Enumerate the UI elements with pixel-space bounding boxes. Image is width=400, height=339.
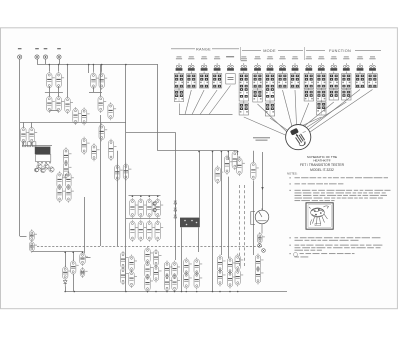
resistor R62 [194, 258, 202, 276]
resistor R29 [147, 198, 155, 219]
switch S2D MODE 4 [278, 56, 287, 88]
resistor R5 [65, 96, 73, 114]
resistor R9 [98, 95, 106, 113]
resistor R63 [194, 272, 202, 290]
pilot lamp PL1 [258, 244, 262, 248]
svg-text:RANGE: RANGE [196, 47, 211, 51]
wire mode slant [283, 90, 293, 127]
wire from post E [59, 59, 61, 64]
resistor R20 [57, 185, 65, 203]
resistor R27 [138, 198, 146, 219]
resistor R2 [56, 71, 64, 89]
resistor R72 [21, 126, 29, 144]
wire dashed chassis line [37, 246, 262, 248]
resistor R30 [147, 220, 155, 242]
wire from SELF-TEST post [19, 59, 21, 122]
resistor R59 [172, 274, 180, 292]
resistor R73 [29, 126, 37, 144]
resistor R1 [47, 71, 55, 89]
wire long vertical [125, 64, 127, 291]
resistor R45 [80, 267, 87, 278]
resistor R61 [184, 272, 192, 290]
callout circle with hand icon [286, 125, 311, 150]
switch S1D RANGE 4 [212, 56, 221, 88]
resistor R54 [153, 249, 161, 267]
resistor R17 [63, 147, 71, 165]
wire horizontal mid [158, 150, 238, 152]
wire from post B [45, 59, 47, 64]
resistor R42 [63, 266, 71, 281]
wire drop to R1 [49, 64, 51, 71]
wire vertical [221, 151, 223, 255]
wire drop to R8 [101, 64, 103, 72]
wire vertical meter feed [262, 152, 264, 210]
wire drop to R72 [23, 122, 25, 127]
resistor R74 [224, 155, 232, 175]
transformer T1 (solid block) [35, 147, 51, 155]
wire above T1 [22, 145, 52, 147]
resistor R71 [255, 267, 263, 285]
wire cluster C top bus [129, 195, 161, 197]
switch S3D FUNCTION 4 [342, 56, 351, 100]
resistor R47 [120, 251, 128, 269]
resistor R8 [99, 72, 107, 90]
small part row above T1 [23, 142, 36, 147]
wire below R7 [93, 87, 95, 92]
wire from post C [37, 59, 39, 64]
resistor R64 [217, 255, 225, 273]
wire R2-R4 [58, 86, 60, 96]
pilot lamp PL2 [262, 249, 266, 253]
wire drop E1 [65, 252, 67, 267]
resistor R14 [91, 143, 99, 161]
diode string D1-D3 [174, 201, 177, 218]
wire drop to R5 [67, 64, 69, 97]
resistor R40 [251, 161, 259, 181]
wire function slant [307, 102, 347, 128]
wire from T2 right [198, 227, 200, 252]
resistor R23 [29, 229, 37, 242]
RANGE group header [171, 47, 239, 51]
wire vertical [84, 197, 86, 253]
resistor R67 [227, 271, 235, 289]
wire jog E [86, 257, 91, 259]
transistor Q2 [44, 164, 49, 169]
switch S2E MODE 5 [290, 56, 299, 88]
wire jog to R23 [20, 236, 27, 238]
note 3 [290, 190, 391, 201]
transformer T2 (solid block) [180, 218, 200, 228]
wire vertical [228, 151, 230, 160]
wire RANGE bus [179, 114, 233, 116]
resistor R12 [99, 123, 107, 141]
resistor R7 [91, 72, 99, 90]
resistor R10 [108, 102, 116, 120]
wire vertical [157, 64, 159, 151]
svg-text:HEATHKIT®: HEATHKIT® [313, 158, 331, 162]
relay K1 box [35, 155, 50, 162]
resistor R50 [129, 270, 137, 288]
arrowhead on meter feed [261, 187, 263, 190]
binding post B [43, 48, 47, 59]
transistor Q4 [153, 202, 157, 206]
wire tie [45, 92, 63, 94]
switch S1C RANGE 3 [199, 56, 208, 88]
wire mode slant [244, 117, 287, 136]
wire vertical [175, 132, 177, 260]
resistor R51 [145, 247, 153, 265]
resistor R46 [80, 252, 88, 267]
note 1 [290, 177, 389, 178]
resistor R52 [145, 261, 153, 279]
wire vertical left long [19, 122, 21, 236]
wire bottom bus [66, 291, 287, 293]
wire top bus [37, 64, 158, 66]
note 4 [290, 237, 381, 241]
wire function slant [309, 90, 361, 130]
wire horizontal [20, 122, 126, 124]
junction dots cluster C [132, 195, 159, 197]
relay contact dots [37, 162, 50, 163]
note 2 [290, 183, 344, 184]
wire tie3 [89, 92, 102, 94]
wire vertical [253, 181, 255, 255]
resistor R15 [115, 164, 123, 182]
wire drop E3 [82, 252, 84, 253]
switch S3F FUNCTION 6 [368, 56, 377, 87]
wire dash-dot vertical [239, 185, 241, 268]
resistor R57 [164, 274, 172, 292]
resistor R28 [138, 220, 146, 242]
wire vertical [100, 115, 102, 246]
capacitor C1 [108, 139, 116, 161]
svg-text:FUNCTION: FUNCTION [329, 49, 351, 53]
wire dash-dot vertical 2 [244, 185, 246, 268]
resistor R11 [81, 107, 89, 125]
note 6 with circled symbol [290, 253, 355, 258]
resistor R4 [56, 95, 64, 113]
resistor R31 [155, 198, 163, 219]
junction dots mid bus [198, 151, 238, 153]
resistor R68 [235, 254, 243, 272]
volts readout caption [253, 137, 270, 141]
FUNCTION group header [306, 49, 381, 53]
resistor R66 [227, 257, 235, 275]
resistor R16 [123, 163, 131, 181]
wire vertical [228, 177, 230, 258]
wire horizontal [126, 132, 175, 134]
resistor R49 [129, 255, 137, 273]
transistor Q9 [35, 168, 39, 172]
resistor R44 [71, 260, 79, 276]
wire vertical [237, 151, 239, 155]
resistor R26 [130, 220, 138, 242]
resistor R32 [155, 220, 163, 242]
resistor R24 [29, 240, 37, 253]
diode D4 [63, 281, 67, 287]
wire drop E2 [73, 252, 75, 261]
meter M1 [251, 208, 269, 233]
wire R73 to T1 [31, 143, 33, 146]
group separator tick [240, 47, 242, 60]
resistor R69 [235, 269, 243, 287]
resistor R60 [184, 258, 192, 276]
resistor R55 [153, 265, 161, 283]
junction dots on lower-left line [64, 252, 83, 254]
junction dots bottom bus [64, 291, 238, 293]
resistor R39 [232, 150, 240, 170]
switch S2A MODE 1 [239, 56, 248, 115]
wire vertical to T2 [199, 151, 201, 218]
socket detail illustration box [306, 203, 333, 229]
wire range drop [179, 104, 181, 115]
svg-text:MODE: MODE [263, 49, 276, 53]
note 5 [290, 245, 383, 251]
resistor R56 [164, 261, 172, 279]
binding post SELF-TEST [18, 48, 22, 59]
wire drop to R73 [31, 122, 33, 127]
binding post C [35, 48, 39, 59]
wire function slant [300, 103, 309, 125]
MODE group header [242, 49, 303, 53]
switch S3A FUNCTION 1 [304, 56, 313, 101]
switch S3C FUNCTION 3 [329, 56, 338, 100]
resistor R18 [63, 161, 71, 179]
resistor R25 [130, 198, 138, 219]
wire to bus [65, 287, 67, 292]
wire from T2 left [181, 227, 183, 291]
wire vertical [212, 151, 214, 291]
resistor R13 [81, 137, 89, 155]
resistor R22 [66, 185, 74, 203]
resistor R70 [255, 254, 263, 272]
resistor R48 [120, 267, 128, 285]
resistor R75 [237, 157, 245, 177]
resistor R58 [172, 261, 180, 279]
switch S1A RANGE 1 [174, 56, 183, 101]
wire vertical [117, 151, 119, 246]
wire range drop [209, 86, 231, 115]
switch S2B MODE 2 [253, 56, 262, 102]
wire to bus2 [73, 274, 75, 291]
resistor R53 [145, 275, 153, 293]
wire function slant [303, 117, 322, 126]
switch S3E FUNCTION 5 [355, 56, 364, 87]
wire vertical [100, 64, 102, 96]
resistor R6 [73, 107, 81, 125]
svg-text:NOTES:: NOTES: [287, 171, 298, 175]
transistor Q3 [49, 167, 54, 172]
resistor R19 [57, 171, 65, 189]
wire range drop [192, 90, 204, 115]
wire vertical [253, 151, 255, 162]
junction dots top bus [49, 64, 127, 66]
wire mode slant [270, 118, 289, 131]
resistor R38 [215, 166, 223, 185]
wire drop to R7 [93, 64, 95, 72]
resistor R65 [217, 269, 225, 287]
wire R1-R3 [49, 86, 51, 96]
wire function slant [305, 102, 334, 126]
wire vertical [88, 64, 90, 73]
svg-text:FET / TRANSISTOR TESTER: FET / TRANSISTOR TESTER [300, 163, 345, 167]
transistor Q1 [37, 164, 42, 169]
wire drop to R2 [58, 64, 60, 71]
wire mode slant [295, 90, 297, 125]
resistor R21 [66, 171, 74, 189]
wire range drop [200, 90, 217, 115]
switch S1E RANGE 5 (empty section) [226, 56, 235, 84]
switch S1B RANGE 2 [187, 56, 196, 88]
svg-text:MODEL IT-3232: MODEL IT-3232 [310, 168, 334, 172]
binding post E [57, 48, 61, 59]
wire function slant [310, 90, 373, 133]
wire R72 to T1 [23, 143, 25, 146]
resistor R3 [47, 95, 55, 113]
transistor Q8 [41, 168, 45, 172]
switch S2C MODE 3 [265, 56, 274, 116]
wire horizontal lower-left [32, 251, 84, 253]
switch S3B FUNCTION 2 [317, 56, 326, 115]
wire cluster C mid bus [126, 218, 161, 220]
transistor Q5 [153, 208, 157, 212]
wire mode slant [258, 104, 288, 132]
wire tie2 [49, 110, 58, 112]
wire range drop [185, 90, 191, 115]
group separator tick 2 [303, 47, 305, 60]
resistor R41 [258, 232, 265, 245]
